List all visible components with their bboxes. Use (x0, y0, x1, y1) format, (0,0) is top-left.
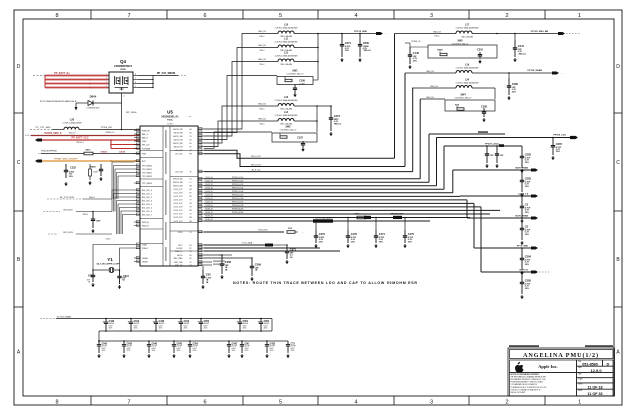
svg-text:PP1V1_LDO7: PP1V1_LDO7 (232, 201, 243, 203)
ground C283 (521, 193, 523, 195)
svg-text:C5: C5 (189, 232, 191, 234)
title block rev cell (603, 360, 614, 366)
svg-text:Y2: Y2 (189, 214, 191, 216)
capacitor C60 below U5 (201, 266, 212, 284)
ground C146 (409, 65, 411, 67)
svg-text:L10: L10 (284, 23, 289, 26)
svg-text:20%: 20% (193, 350, 197, 352)
svg-text:L2: L2 (190, 182, 192, 184)
bottom cap bank rail 1 right end (271, 319, 273, 332)
svg-text:20%: 20% (204, 328, 208, 330)
ground C644 (119, 285, 121, 287)
svg-text:XW5: XW5 (457, 40, 463, 43)
capacitor C646 (147, 340, 158, 353)
svg-text:WF_JCO: WF_JCO (142, 144, 150, 146)
svg-text:TBD-C: TBD-C (259, 108, 265, 110)
U5 left pin stubs and labels (134, 129, 152, 263)
ground C369 (251, 277, 253, 279)
svg-text:PP0V9_LDOQ: PP0V9_LDOQ (485, 143, 499, 145)
bus dense rows from U5 (204, 179, 500, 214)
capacitor C471 (374, 218, 386, 244)
bus row B_CLK32K with resistor R618 (204, 228, 305, 234)
svg-text:TP2_SMU4: TP2_SMU4 (142, 183, 152, 185)
title block sheet row 2 (577, 389, 614, 396)
svg-text:C476: C476 (351, 232, 358, 236)
svg-text:PP0V8_BCK3: PP0V8_BCK3 (232, 209, 243, 211)
ground C72 (287, 354, 289, 356)
svg-text:20%: 20% (109, 328, 113, 330)
svg-text:2.2UH-1.3MA-1608M-NM: 2.2UH-1.3MA-1608M-NM (456, 26, 479, 29)
wire top rail to C274 and arrow (318, 33, 376, 35)
wire WP_JID66 vertical (122, 103, 138, 130)
ground C646 (148, 354, 150, 356)
svg-text:20%: 20% (351, 241, 355, 243)
svg-text:E5: E5 (189, 143, 191, 145)
ground C368 (221, 275, 223, 277)
svg-text:J2: J2 (190, 262, 192, 264)
svg-text:20%: 20% (245, 350, 249, 352)
svg-text:PP_5V2_SMUM: PP_5V2_SMUM (157, 72, 175, 75)
svg-text:C282: C282 (525, 153, 532, 157)
svg-text:SHEET: SHEET (578, 390, 583, 392)
svg-text:BI3_LDO_6: BI3_LDO_6 (142, 211, 152, 213)
svg-text:C471: C471 (379, 232, 386, 236)
capacitor C642 (122, 340, 133, 353)
svg-text:TBD-1: TBD-1 (83, 214, 88, 216)
svg-text:PP2V5_LDO6: PP2V5_LDO6 (232, 198, 243, 200)
svg-text:PCHGEN: PCHGEN (142, 148, 151, 150)
svg-text:SMU_LB: SMU_LB (258, 31, 266, 33)
svg-text:H1: H1 (189, 258, 191, 260)
svg-text:PP_BATT_B+: PP_BATT_B+ (54, 72, 70, 75)
svg-text:C167: C167 (297, 137, 303, 140)
terminal PP_BATT_VCC (35, 139, 42, 142)
svg-text:20%: 20% (243, 328, 247, 330)
title block filename left (509, 345, 539, 347)
svg-text:LDO4_OUT: LDO4_OUT (174, 203, 183, 205)
wire rail1 to rail2 (98, 331, 100, 341)
svg-text:B1.8_OU: B1.8_OU (252, 169, 261, 171)
svg-text:TBD-1.3A-NM: TBD-1.3A-NM (461, 35, 473, 38)
svg-text:W1: W1 (189, 210, 192, 212)
svg-text:B2_TOP_BUS: B2_TOP_BUS (60, 197, 75, 199)
svg-text:J9: J9 (190, 171, 192, 173)
svg-text:2.2UH-1.3MA-1608M-NM: 2.2UH-1.3MA-1608M-NM (275, 99, 298, 102)
Q4 pin stubs right (133, 74, 138, 88)
svg-text:PP1V8_LDO2: PP1V8_LDO2 (232, 184, 243, 186)
ground C640 (98, 354, 100, 356)
bus row net labels column 2 (232, 177, 243, 214)
ground C282 group (485, 164, 523, 173)
svg-text:20%: 20% (413, 60, 417, 62)
svg-text:2.2UH-1.3MA-1608M-NM: 2.2UH-1.3MA-1608M-NM (275, 40, 298, 43)
svg-text:CONFIDENCE II) NOT TO REPRODU: CONFIDENCE II) NOT TO REPRODUCE OR COPY (511, 387, 547, 389)
U5 right pin stubs (198, 128, 204, 266)
svg-text:LDO1_OUT: LDO1_OUT (174, 193, 183, 195)
svg-text:F6: F6 (190, 146, 192, 148)
svg-text:A3: A3 (189, 216, 191, 219)
svg-text:SMU_LB: SMU_LB (433, 31, 441, 33)
svg-text:U8: U8 (189, 203, 191, 205)
svg-text:PP0V9_LDO1: PP0V9_LDO1 (232, 180, 243, 182)
svg-text:L21: L21 (284, 51, 289, 54)
svg-text:G7: G7 (189, 150, 191, 152)
svg-text:2.2UH-1.3MA-1608M-NM: 2.2UH-1.3MA-1608M-NM (275, 114, 298, 117)
svg-text:··: ·· (501, 208, 503, 212)
terminal arrow PP1V8_SMU_BB (531, 31, 580, 35)
title block number cell (577, 360, 603, 366)
wire PP_BATT_VCC (red) (42, 137, 140, 144)
svg-text:PP_TOP_SMU: PP_TOP_SMU (36, 127, 51, 129)
wire corner bends up to right column rows (429, 134, 481, 272)
svg-text:WDOG: WDOG (177, 255, 183, 257)
svg-text:XW1: XW1 (292, 70, 298, 73)
svg-text:SHEET: SHEET (578, 384, 583, 386)
inductor L13 (250, 96, 331, 111)
svg-text:C371_DEA: C371_DEA (242, 241, 253, 244)
capacitor C146 (408, 47, 420, 64)
capacitor C273 (329, 106, 342, 131)
svg-text:SMU_LB: SMU_LB (258, 59, 266, 61)
terminal arrow PP1V8_SMU (354, 31, 386, 36)
capacitor C280 (507, 73, 519, 95)
svg-text:11 OF 33: 11 OF 33 (587, 392, 602, 396)
svg-text:5: 5 (279, 400, 282, 406)
title block version cell (577, 366, 614, 373)
title block sheet row 1 (577, 383, 614, 390)
svg-text:SMU_LB: SMU_LB (258, 119, 266, 121)
svg-text:DNI203: DNI203 (101, 151, 109, 153)
svg-text:PP0V75_SMU_BUCK: PP0V75_SMU_BUCK (314, 217, 333, 219)
svg-text:XW2: XW2 (285, 126, 291, 129)
svg-text:PP1V8_SRAM: PP1V8_SRAM (528, 69, 543, 72)
wire Q4 output PP_5V2_SMUM (138, 72, 186, 88)
ground C475 (404, 244, 406, 246)
svg-text:NOTES: ROUTE THIN TRACE BETWEE: NOTES: ROUTE THIN TRACE BETWEEN LDO AND … (233, 281, 418, 285)
resistor R616 (38, 150, 140, 155)
svg-text:CLK32K: CLK32K (176, 248, 183, 250)
ground C241 (514, 58, 516, 60)
svg-text:C3: C3 (525, 225, 529, 229)
ground C371 (286, 260, 288, 262)
svg-text:TP3_SMU2: TP3_SMU2 (142, 172, 152, 174)
svg-text:SIZE: SIZE (578, 361, 581, 363)
svg-text:L11: L11 (284, 37, 289, 40)
wire red stub row3 (111, 145, 140, 149)
wire staircase U5 to top filter rows (204, 34, 250, 149)
right column row with capacitor C284 (474, 245, 543, 270)
svg-text:SMU_LB: SMU_LB (258, 45, 266, 47)
inductor L19 (405, 63, 552, 73)
svg-text:BI3_LDO_3: BI3_LDO_3 (142, 200, 152, 202)
capacitor C652 (257, 318, 270, 332)
svg-text:C287: C287 (556, 142, 563, 146)
svg-text:BUCK2_FB: BUCK2_FB (174, 146, 184, 148)
net row to capacitor C368 (204, 254, 232, 274)
wire riser to L24 row (412, 88, 414, 172)
svg-text:NTC0: NTC0 (178, 232, 182, 234)
svg-text:D4: D4 (189, 139, 191, 141)
wire red stub row2 (110, 140, 140, 145)
svg-text:C451B: C451B (119, 150, 126, 153)
capacitor C372 (314, 221, 326, 243)
junction L20 to U5 (106, 129, 140, 134)
svg-text:R6: R6 (189, 196, 191, 198)
svg-text:3: 3 (430, 400, 433, 406)
ground C471 (375, 244, 377, 246)
svg-text:L20: L20 (70, 117, 75, 121)
inductor L10 (250, 23, 318, 38)
svg-text:LDO4_B: LDO4_B (206, 191, 214, 193)
svg-text:8: 8 (55, 400, 58, 406)
svg-text:7: 7 (127, 400, 130, 406)
svg-text:C368: C368 (225, 260, 232, 264)
bus rows bottom gray (204, 248, 340, 251)
inductor L21 (250, 51, 318, 66)
ground C372 (315, 244, 317, 246)
right column row with capacitor C3 (460, 193, 543, 218)
svg-text:12.0.0: 12.0.0 (590, 368, 602, 373)
svg-text:20%: 20% (379, 241, 383, 243)
svg-text:C280: C280 (512, 82, 519, 86)
svg-text:COMS/DIODE: COMS/DIODE (87, 108, 101, 110)
svg-text:PP1V8_LDO5: PP1V8_LDO5 (232, 194, 243, 196)
row ticks right (614, 112, 622, 114)
svg-text:D6: D6 (189, 245, 191, 247)
svg-text:#1 OF 2: #1 OF 2 (167, 124, 174, 126)
svg-text:B13_B1N: B13_B1N (63, 232, 73, 234)
ground C284 (521, 271, 523, 273)
filter block XW2 (250, 126, 317, 143)
ground C641 (92, 283, 94, 285)
svg-text:F8: F8 (190, 251, 192, 253)
svg-text:C372: C372 (319, 232, 326, 236)
capacitor C643 (227, 340, 238, 353)
svg-text:—: — (189, 116, 192, 119)
svg-text:343S00261-A1: 343S00261-A1 (161, 115, 179, 119)
ground C273 (330, 132, 332, 134)
net B2_TOP_BUS (47, 197, 112, 199)
svg-text:TBD-C: TBD-C (259, 64, 265, 66)
svg-text:LDO_V31: LDO_V31 (175, 154, 182, 156)
svg-text:LDO2_OUT: LDO2_OUT (174, 196, 183, 198)
svg-text:2: 2 (505, 13, 508, 19)
svg-text:SMU_A: SMU_A (142, 221, 149, 224)
svg-text:SMU_LB: SMU_LB (426, 97, 434, 99)
net B13_B18 with capacitor C237 (43, 209, 112, 228)
capacitor C550 (188, 340, 199, 353)
svg-text:SMU_TMS: SMU_TMS (174, 262, 183, 264)
svg-text:TP3_SMU1: TP3_SMU1 (142, 169, 152, 171)
title block title row (510, 350, 614, 360)
svg-text:BUCK3_SW: BUCK3_SW (173, 178, 183, 180)
svg-text:6: 6 (203, 13, 206, 19)
inductor L24 (412, 78, 495, 99)
svg-text:G9: G9 (189, 255, 191, 257)
svg-text:BI3_LDO_4: BI3_LDO_4 (142, 204, 152, 206)
svg-text:-TBD-LO: -TBD-LO (518, 53, 527, 55)
svg-text:20%: 20% (525, 186, 529, 188)
IC U5 343S00261-A1 (140, 110, 198, 267)
svg-text:BUCK4_SW: BUCK4_SW (173, 182, 183, 184)
svg-text:BUCK2_SW: BUCK2_SW (173, 143, 183, 145)
bottom stub labels SMU_JBL (204, 261, 225, 265)
right column row with capacitor C285 (481, 269, 549, 294)
svg-text:TBD-C: TBD-C (259, 36, 265, 38)
svg-text:PP1V8_SMU_BB: PP1V8_SMU_BB (531, 31, 549, 33)
column ticks bottom (90, 396, 92, 405)
svg-text:L14: L14 (284, 111, 289, 114)
ground XW4 cap (483, 118, 485, 120)
svg-text:LDO1_B: LDO1_B (206, 180, 214, 182)
svg-text:SMU_LB: SMU_LB (430, 86, 438, 88)
svg-text:20%: 20% (525, 264, 529, 266)
svg-text:B_VDD_MAIN: B_VDD_MAIN (57, 315, 71, 318)
svg-text:C146: C146 (413, 51, 420, 55)
svg-text:5: 5 (279, 13, 282, 19)
svg-text:LDO7_B: LDO7_B (206, 201, 214, 203)
svg-text:C: C (17, 160, 21, 166)
D604 left lead arrow (75, 103, 78, 111)
svg-text:LDO8_B: LDO8_B (206, 205, 214, 207)
svg-text:Y1: Y1 (107, 257, 113, 262)
wire riser to XW4 row (419, 99, 421, 179)
inductor L20 (52, 117, 122, 134)
svg-text:L24: L24 (465, 78, 470, 81)
svg-text:RESET_L: RESET_L (175, 251, 183, 253)
svg-text:C285: C285 (525, 279, 532, 283)
title block date row (577, 372, 614, 377)
ground C274 (341, 58, 343, 60)
svg-text:20%: 20% (319, 241, 323, 243)
svg-text:C3: C3 (525, 203, 529, 207)
svg-text:BAT_G: BAT_G (142, 136, 149, 139)
svg-text:100NF: 100NF (299, 83, 305, 85)
svg-text:C600: C600 (363, 41, 370, 45)
svg-text:LDO9_OUT: LDO9_OUT (174, 221, 183, 223)
ground C600 (359, 58, 361, 60)
bottom cap bank rail 2 (99, 340, 288, 342)
filter block XW4 (420, 94, 495, 118)
svg-text:CHG: CHG (142, 141, 147, 143)
svg-text:20%: 20% (525, 162, 529, 164)
svg-text:CSD68803W15: CSD68803W15 (114, 64, 133, 68)
svg-text:20%: 20% (102, 350, 106, 352)
svg-text:PSB_BUFFERS: PSB_BUFFERS (41, 151, 57, 153)
capacitor C644 (117, 269, 129, 284)
svg-text:2.2UH-1.3MA-1608M-NM: 2.2UH-1.3MA-1608M-NM (456, 66, 479, 69)
svg-text:D604: D604 (90, 95, 97, 99)
svg-text:XTALI: XTALI (142, 243, 148, 246)
svg-text:20%: 20% (512, 91, 516, 93)
ground XW2 (302, 148, 304, 150)
svg-text:BAT_S: BAT_S (142, 133, 149, 136)
svg-text:20%: 20% (127, 350, 131, 352)
svg-text:C475: C475 (408, 232, 415, 236)
svg-text:LDO0_OUT: LDO0_OUT (174, 189, 183, 191)
svg-text:BI3_LDO_0: BI3_LDO_0 (142, 190, 152, 192)
svg-text:0.35OHM-1-TBD-LO: 0.35OHM-1-TBD-LO (280, 129, 297, 131)
svg-text:20%: 20% (264, 328, 268, 330)
wire riser to L17 row (394, 34, 396, 159)
capacitor below XW1 (294, 85, 296, 89)
svg-text:SMU_JTAG: SMU_JTAG (174, 257, 184, 260)
bus row PP0V75 with resistor R649 (204, 213, 470, 220)
svg-text:LDO5_OUT: LDO5_OUT (174, 207, 183, 209)
capacitor C643 (172, 340, 183, 353)
svg-text:4: 4 (124, 96, 125, 98)
svg-text:BUCK1_FB: BUCK1_FB (174, 139, 184, 141)
bus row net labels column 1 (206, 177, 214, 221)
svg-text:· ·: · · (277, 244, 280, 247)
svg-text:K3: K3 (189, 265, 191, 267)
filter block XW1 (250, 70, 313, 86)
ground C60 (202, 285, 204, 287)
wire XW1 row to bus riser (313, 33, 319, 80)
capacitor C241 (513, 34, 527, 58)
bottom cap bank rail 1 (99, 318, 272, 320)
svg-text:SMU-1: SMU-1 (89, 197, 95, 199)
svg-text:TBD-LO: TBD-LO (69, 132, 76, 134)
svg-text:GA-7 32K-0.5PPM-1-0.9PF: GA-7 32K-0.5PPM-1-0.9PF (96, 262, 120, 265)
svg-text:PP1V8_SMU: PP1V8_SMU (354, 31, 367, 33)
svg-text:TP3_SMU3: TP3_SMU3 (142, 176, 152, 178)
svg-text:2%: 2% (290, 257, 293, 259)
svg-text:100K: 100K (93, 172, 98, 174)
svg-text:·: · (386, 32, 387, 36)
svg-text:LDO6_B: LDO6_B (206, 198, 214, 200)
capacitor C600 (358, 34, 372, 58)
svg-text:2.2UH-1.3MA-1608M-NM: 2.2UH-1.3MA-1608M-NM (275, 26, 298, 29)
svg-text:PP1V_SMU: PP1V_SMU (517, 245, 529, 247)
svg-text:L13: L13 (284, 96, 289, 99)
terminal arrow PP1V8_SMU_SRAM (528, 69, 563, 75)
svg-text:C232: C232 (70, 167, 76, 170)
svg-text:BUCK0_SW: BUCK0_SW (173, 129, 183, 131)
svg-text:·: · (562, 71, 563, 75)
wire riser to L19 row (404, 73, 406, 167)
svg-text:ANGELINA PMU(1/2): ANGELINA PMU(1/2) (523, 352, 599, 359)
svg-text:Q4: Q4 (120, 59, 127, 64)
svg-text:PPBAT_SMU_LDOBYP: PPBAT_SMU_LDOBYP (54, 158, 78, 161)
wire PP3V8_SMU (dark red) (25, 132, 140, 136)
wire Q4 gate down (121, 93, 123, 103)
ground C3 (521, 241, 523, 243)
wire PPBAT_SMU_LDOBYP (orange) (42, 158, 140, 162)
svg-text:LDO8_1.8: LDO8_1.8 (518, 193, 528, 195)
Q4 pin stubs left (104, 74, 109, 88)
diode D604 (76, 95, 122, 110)
svg-text:PP1V2_LDO3: PP1V2_LDO3 (232, 187, 243, 189)
column ticks top (90, 10, 92, 19)
svg-text:C283: C283 (525, 177, 532, 181)
row ticks left (14, 112, 23, 114)
svg-text:C273: C273 (334, 114, 341, 118)
U5 right pin internal labels (173, 128, 192, 267)
capacitor C448 (102, 318, 115, 332)
ground C643 (173, 354, 175, 356)
svg-text:20%: 20% (408, 241, 412, 243)
svg-text:BI3_LDO_5: BI3_LDO_5 (142, 207, 152, 209)
svg-text:A1: A1 (189, 128, 191, 131)
wire PPBAT input to Q4 (red bundle) (33, 72, 108, 88)
transistor Q4 (109, 59, 133, 93)
svg-text:20%: 20% (177, 350, 181, 352)
svg-text:8: 8 (55, 13, 58, 19)
svg-text:TBD-C: TBD-C (434, 36, 440, 38)
svg-text:2.2UH-1.3MA-1608M: 2.2UH-1.3MA-1608M (63, 121, 82, 124)
capacitor C274 (340, 34, 352, 58)
